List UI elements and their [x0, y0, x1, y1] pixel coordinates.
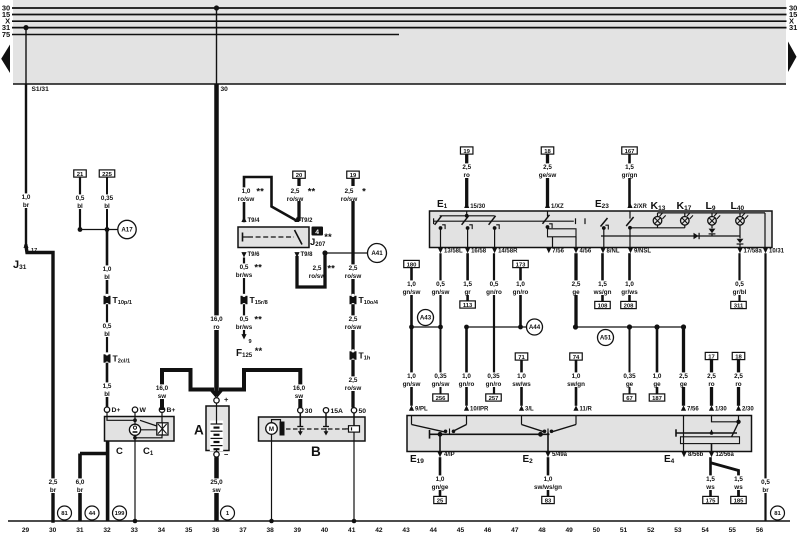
- svg-text:41: 41: [348, 527, 356, 534]
- wire 2,5 ge to 7/56: [682, 327, 685, 406]
- svg-text:S1/31: S1/31: [32, 86, 50, 93]
- pin 2/XR: [627, 203, 632, 208]
- pin 15/30: [464, 203, 469, 208]
- wire 0,35 bl: [106, 177, 108, 229]
- svg-text:bl: bl: [104, 391, 110, 398]
- svg-text:1,0: 1,0: [436, 476, 445, 483]
- wire gen bottom loop: [135, 435, 162, 438]
- diode under L9: [711, 225, 713, 228]
- svg-text:1,0: 1,0: [242, 188, 251, 195]
- node A44 left: [464, 325, 469, 330]
- node rail 41: [352, 519, 357, 524]
- wire bracket battery + to starter 30: [221, 370, 300, 408]
- generator symbol G: [129, 424, 140, 435]
- wire 1,5 ws left: [709, 457, 712, 496]
- svg-text:gn/sw: gn/sw: [403, 381, 421, 388]
- E4 wire 1/30 internal: [712, 416, 739, 422]
- svg-text:49: 49: [566, 527, 574, 534]
- relay switch blade: [295, 230, 303, 245]
- wire D+ internal: [107, 412, 135, 420]
- wire V joint at battery plus: [211, 390, 217, 397]
- svg-text:sw/ws: sw/ws: [512, 381, 531, 388]
- node junction 0,35bl: [105, 227, 110, 232]
- svg-text:0,5: 0,5: [103, 323, 112, 330]
- svg-text:T9/8: T9/8: [301, 252, 314, 258]
- wire 0,5 bl: [79, 177, 81, 229]
- svg-text:bl: bl: [104, 274, 110, 281]
- ground point 81: [58, 506, 72, 520]
- svg-text:2,5: 2,5: [349, 377, 358, 384]
- starter solenoid: [280, 422, 285, 436]
- svg-text:31: 31: [789, 23, 797, 32]
- wire 2,5 ro feed: [465, 154, 468, 208]
- wire 0,5 gn/ro - 0,35 gn/ro: [493, 253, 495, 394]
- svg-text:ge: ge: [653, 381, 661, 388]
- junction line to A41: [325, 252, 368, 254]
- E19 bus bar: [430, 433, 550, 435]
- svg-text:2,5: 2,5: [734, 373, 743, 380]
- track numbers: [22, 527, 764, 534]
- rail break symbol: [574, 219, 585, 223]
- ground point 81 right: [771, 506, 785, 520]
- svg-text:1,5: 1,5: [625, 164, 634, 171]
- wire 8/56b internal: [683, 433, 685, 452]
- bus bar band: [13, 0, 786, 84]
- wire 50 to track 41: [353, 432, 355, 521]
- E19 blade right: [452, 425, 467, 432]
- wire 2,5 ro/sw from 20: [297, 178, 300, 221]
- wire 0,5 gn/sw: [439, 253, 441, 327]
- ref box 19 mid: [347, 171, 360, 178]
- svg-text:gn/ro: gn/ro: [486, 289, 502, 296]
- svg-text:21: 21: [77, 172, 84, 178]
- svg-text:gr: gr: [464, 289, 471, 296]
- svg-text:10/IPR: 10/IPR: [470, 407, 489, 413]
- svg-text:2,5: 2,5: [543, 164, 552, 171]
- svg-text:67: 67: [626, 396, 633, 402]
- wire lamp feed rail: [630, 227, 685, 229]
- svg-text:54: 54: [701, 527, 709, 534]
- lamp L40: [736, 217, 745, 226]
- svg-text:bl: bl: [77, 203, 83, 210]
- wire 2,5 br elbow: [26, 246, 53, 521]
- E4 contact bar: [676, 432, 737, 434]
- svg-text:34: 34: [158, 527, 166, 534]
- wire 2,5 ro/sw hook to T9/8: [297, 253, 325, 287]
- svg-text:gr/ws: gr/ws: [621, 289, 638, 296]
- wire 1,0 sw/ws/gn: [547, 457, 550, 496]
- svg-text:12/56a: 12/56a: [716, 452, 735, 458]
- wire 1,5 gr: [466, 253, 469, 301]
- wire L40 down: [739, 225, 741, 238]
- svg-text:50: 50: [359, 408, 367, 415]
- wire 2,5 ro/sw mid: [351, 304, 354, 351]
- svg-text:256: 256: [436, 396, 447, 402]
- svg-text:2,5: 2,5: [349, 265, 358, 272]
- svg-text:18: 18: [544, 149, 551, 155]
- E4 switch blade: [732, 423, 739, 438]
- E4 wire 2/30 internal: [738, 416, 740, 422]
- svg-text:A: A: [194, 423, 204, 438]
- wire 30 inside band: [216, 8, 218, 84]
- contact 15A internal: [325, 413, 327, 427]
- pin 1/XZ: [545, 203, 550, 208]
- svg-text:ws: ws: [705, 484, 715, 491]
- svg-text:A44: A44: [529, 324, 541, 331]
- wire S1/31 inside band: [25, 28, 27, 84]
- warning lamp K13: [653, 217, 662, 226]
- svg-text:ws/gn: ws/gn: [593, 289, 612, 296]
- svg-text:13/58L: 13/58L: [444, 249, 463, 255]
- svg-text:16,0: 16,0: [293, 385, 306, 392]
- svg-text:**: **: [254, 263, 262, 274]
- svg-text:**: **: [327, 264, 335, 275]
- svg-text:74: 74: [573, 355, 580, 361]
- ref box 18 lower: [732, 352, 745, 359]
- terminal D+: [104, 407, 109, 412]
- E1 switch blade 58R: [489, 216, 496, 225]
- node A51 4: [681, 324, 686, 329]
- direction arrow right: [788, 42, 797, 73]
- svg-text:gr/gn: gr/gn: [622, 172, 638, 179]
- svg-text:199: 199: [115, 511, 126, 517]
- terminal T1h: [350, 351, 357, 359]
- svg-text:br: br: [50, 487, 57, 494]
- ref box 74: [570, 353, 583, 360]
- svg-text:1,0: 1,0: [22, 194, 31, 201]
- svg-text:31: 31: [76, 527, 84, 534]
- svg-text:1,0: 1,0: [517, 373, 526, 380]
- svg-text:35: 35: [185, 527, 193, 534]
- svg-text:10/31: 10/31: [769, 249, 785, 255]
- svg-text:1,0: 1,0: [572, 373, 581, 380]
- ref box 256: [433, 394, 449, 401]
- connector arrow 17 J31: [23, 243, 28, 248]
- svg-text:1/XZ: 1/XZ: [551, 204, 564, 210]
- svg-text:sw: sw: [158, 393, 167, 400]
- wire 1,5 gr/gn feed: [628, 154, 631, 208]
- bus labels right: [789, 4, 797, 33]
- svg-text:6,0: 6,0: [76, 479, 85, 486]
- wire 2,5 ro to 2/30: [737, 360, 740, 406]
- svg-text:0,35: 0,35: [101, 195, 114, 202]
- svg-text:208: 208: [624, 303, 635, 309]
- svg-text:14/58R: 14/58R: [498, 249, 518, 255]
- relay position tag 4: [312, 227, 324, 236]
- svg-text:47: 47: [511, 527, 519, 534]
- svg-text:0,5: 0,5: [761, 479, 770, 486]
- wire 25,0 sw battery ground: [214, 457, 219, 521]
- svg-text:ro/sw: ro/sw: [287, 196, 304, 203]
- svg-text:gn/ge: gn/ge: [432, 484, 449, 491]
- svg-text:2,5: 2,5: [679, 373, 688, 380]
- svg-text:175: 175: [706, 498, 717, 504]
- relay coil contact left: [242, 233, 244, 242]
- wire 9/NSL internal: [629, 228, 631, 248]
- lower box top pins: [409, 405, 414, 410]
- svg-text:ro/sw: ro/sw: [341, 196, 358, 203]
- svg-text:51: 51: [620, 527, 628, 534]
- terminal T10o/4: [350, 296, 357, 304]
- battery A body: [206, 406, 229, 451]
- node A51 2: [627, 324, 632, 329]
- ref box 175: [703, 496, 719, 503]
- svg-text:3/L: 3/L: [525, 407, 534, 413]
- svg-text:A43: A43: [420, 315, 432, 322]
- svg-text:B: B: [311, 444, 321, 459]
- starter box B: [259, 417, 366, 441]
- E4 wire 7/56 internal: [683, 416, 685, 434]
- svg-text:30: 30: [221, 86, 229, 93]
- bus line 75: [12, 34, 399, 36]
- svg-text:ro: ro: [708, 381, 714, 388]
- svg-text:M: M: [269, 426, 274, 433]
- relay dashed linkage: [248, 236, 294, 238]
- E2 blade right: [552, 425, 576, 432]
- svg-text:25,0: 25,0: [210, 479, 223, 486]
- svg-text:81: 81: [774, 511, 781, 517]
- ref box 257: [486, 394, 502, 401]
- E19 blade left: [412, 425, 445, 432]
- svg-text:br/ws: br/ws: [236, 272, 253, 279]
- svg-text:1,0: 1,0: [653, 373, 662, 380]
- terminal 30 starter: [298, 408, 303, 413]
- svg-text:38: 38: [266, 527, 274, 534]
- svg-text:**: **: [254, 315, 262, 326]
- bus line 15: [12, 14, 787, 16]
- svg-text:2,5: 2,5: [707, 373, 716, 380]
- svg-text:2,5: 2,5: [291, 188, 300, 195]
- svg-text:0,35: 0,35: [487, 373, 500, 380]
- svg-text:52: 52: [647, 527, 655, 534]
- diode right: [694, 233, 699, 239]
- svg-text:311: 311: [734, 303, 744, 309]
- node gen top: [133, 418, 137, 422]
- node E2 link: [538, 432, 543, 437]
- svg-text:1,5: 1,5: [598, 281, 607, 288]
- wire 1,0 sw/ws: [520, 360, 523, 406]
- svg-text:T9/6: T9/6: [248, 252, 261, 258]
- relay box J207: [238, 227, 309, 248]
- svg-text:4: 4: [315, 229, 319, 236]
- node A51 3: [654, 324, 659, 329]
- svg-text:0,5: 0,5: [490, 281, 499, 288]
- svg-text:44: 44: [89, 511, 96, 517]
- E1 box bottom pins: [438, 248, 443, 253]
- wire 10/31 internal: [764, 213, 766, 248]
- svg-text:A51: A51: [600, 335, 612, 342]
- terminal W: [132, 407, 137, 412]
- ref box 25: [434, 496, 447, 503]
- svg-text:1,0: 1,0: [462, 373, 471, 380]
- svg-text:D+: D+: [112, 407, 121, 414]
- svg-text:**: **: [324, 232, 332, 243]
- lamp ground rail: [658, 212, 766, 214]
- svg-text:1,5: 1,5: [463, 281, 472, 288]
- connector A17: [118, 220, 136, 238]
- connector A51: [598, 330, 614, 346]
- svg-text:A41: A41: [371, 250, 383, 257]
- svg-text:sw: sw: [295, 393, 304, 400]
- terminal B+: [159, 407, 164, 412]
- wire gen to regulator: [141, 429, 157, 431]
- bus line 30: [12, 7, 787, 9]
- wire 1,0 gn/ro from 173: [519, 268, 522, 327]
- wire 0,5 br ground: [764, 253, 766, 521]
- wire 0,5 br/ws to fuse: [243, 304, 245, 334]
- svg-text:16,0: 16,0: [210, 316, 223, 323]
- pin T9/4: [241, 217, 246, 222]
- lower switch box body: [407, 416, 752, 452]
- wire M to solenoid: [272, 420, 281, 423]
- svg-text:16/58: 16/58: [471, 249, 487, 255]
- svg-text:2,5: 2,5: [462, 164, 471, 171]
- svg-text:ro/sw: ro/sw: [238, 196, 255, 203]
- svg-text:T9/4: T9/4: [248, 218, 261, 224]
- ref box 113: [460, 301, 476, 308]
- svg-text:0,5: 0,5: [240, 316, 249, 323]
- svg-text:ro/sw: ro/sw: [345, 273, 362, 280]
- svg-text:37: 37: [239, 527, 247, 534]
- node gen bottom: [133, 436, 137, 440]
- ref box 83: [542, 496, 555, 503]
- svg-text:ge/sw: ge/sw: [539, 172, 557, 179]
- svg-text:11/R: 11/R: [580, 407, 593, 413]
- junction line A43: [412, 326, 441, 328]
- ref box 173: [513, 260, 529, 267]
- E4 mid contact: [711, 430, 713, 433]
- terminal 50 starter: [351, 408, 356, 413]
- wire 1,0 br: [25, 84, 27, 246]
- svg-text:53: 53: [674, 527, 682, 534]
- ref box 225: [99, 170, 115, 177]
- wire 1,5 ws/gn: [601, 253, 604, 301]
- junction line to A17: [80, 229, 118, 231]
- svg-text:8/NL: 8/NL: [607, 249, 620, 255]
- node A41 junction: [322, 250, 327, 255]
- svg-text:45: 45: [457, 527, 465, 534]
- svg-text:ro: ro: [464, 172, 470, 179]
- ref box 17: [705, 352, 718, 359]
- terminal T10p/1: [104, 296, 111, 304]
- node on bus 31: [23, 25, 28, 30]
- svg-text:1,5: 1,5: [734, 476, 743, 483]
- ref box 167: [622, 147, 638, 154]
- wire 1,0 gn/ro to 10/IPR: [465, 327, 468, 406]
- svg-text:ro/sw: ro/sw: [345, 324, 362, 331]
- ref box 71: [515, 353, 528, 360]
- svg-text:bl: bl: [104, 331, 110, 338]
- ref box 185: [731, 496, 747, 503]
- svg-text:sw/ws/gn: sw/ws/gn: [534, 484, 562, 491]
- pin T9/2: [294, 217, 299, 222]
- wire 12/56a internal: [711, 444, 713, 452]
- svg-text:1,0: 1,0: [516, 281, 525, 288]
- E23 switch blade NSL: [626, 217, 633, 226]
- ref box 18 right: [541, 147, 554, 154]
- svg-text:81: 81: [61, 511, 68, 517]
- fuse F125 arrow: [241, 334, 246, 339]
- svg-text:br/ws: br/ws: [236, 324, 253, 331]
- svg-text:30: 30: [305, 408, 313, 415]
- svg-text:42: 42: [375, 527, 383, 534]
- svg-text:5/49a: 5/49a: [552, 452, 568, 458]
- svg-text:15A: 15A: [331, 408, 344, 415]
- diode under L40: [737, 239, 744, 244]
- svg-text:50: 50: [593, 527, 601, 534]
- E1 contact rail: [433, 220, 576, 222]
- svg-text:16,0: 16,0: [156, 385, 169, 392]
- svg-text:1/30: 1/30: [715, 407, 727, 413]
- svg-text:36: 36: [212, 527, 220, 534]
- E2 wire 3/L internal: [521, 416, 523, 425]
- dashed linkage: [286, 428, 346, 430]
- E19 bus end tick: [429, 430, 431, 439]
- pin T9/8: [294, 252, 299, 257]
- wire 6,0 br: [78, 454, 82, 522]
- junction line A44: [467, 326, 527, 328]
- svg-text:ge: ge: [626, 381, 634, 388]
- svg-text:257: 257: [489, 396, 500, 402]
- wire W internal: [134, 412, 136, 424]
- svg-text:2,5: 2,5: [313, 265, 322, 272]
- pin T9/6: [241, 252, 246, 257]
- svg-text:C: C: [116, 446, 123, 457]
- wire 1,0 ge: [656, 327, 659, 394]
- svg-text:71: 71: [518, 355, 525, 361]
- E19 wire 10/IPR internal: [466, 416, 468, 425]
- current track rail: [8, 520, 790, 522]
- svg-text:4/IP: 4/IP: [444, 452, 455, 458]
- svg-text:B+: B+: [167, 407, 176, 414]
- svg-text:17: 17: [708, 354, 715, 360]
- node A51 1: [573, 324, 578, 329]
- E1 headlight switch contact 1/XZ: [547, 211, 549, 217]
- svg-text:55: 55: [729, 527, 737, 534]
- regulator symbol C1: [157, 423, 168, 435]
- E1 XZ contact bridge: [548, 229, 577, 237]
- ref box 311: [731, 301, 747, 308]
- battery - terminal: [214, 452, 219, 457]
- svg-text:gn/ro: gn/ro: [486, 381, 502, 388]
- node A43 left: [409, 325, 414, 330]
- svg-text:br: br: [23, 202, 30, 209]
- node rail 33: [133, 519, 138, 524]
- svg-text:15/30: 15/30: [470, 204, 486, 210]
- direction arrow left: [1, 45, 10, 74]
- node A44 right: [518, 325, 523, 330]
- warning lamp K17: [681, 217, 690, 226]
- wire 0,5 gr/bl: [738, 253, 740, 301]
- svg-text:0,35: 0,35: [623, 373, 636, 380]
- wire 2,5 ro to 1/30: [710, 360, 713, 406]
- svg-text:ge: ge: [680, 381, 688, 388]
- wire 5/49a internal: [547, 433, 549, 452]
- svg-text:2,5: 2,5: [572, 281, 581, 288]
- ref box 20: [293, 171, 306, 178]
- svg-text:0,5: 0,5: [240, 264, 249, 271]
- svg-text:46: 46: [484, 527, 492, 534]
- wire B+ internal: [161, 412, 163, 422]
- E1 riser 15/30: [466, 211, 468, 216]
- svg-text:20: 20: [296, 173, 303, 179]
- svg-text:173: 173: [516, 262, 527, 268]
- E2 wire 11/R internal: [575, 416, 577, 425]
- bus line X: [12, 20, 787, 22]
- svg-text:40: 40: [321, 527, 329, 534]
- svg-text:2,5: 2,5: [345, 188, 354, 195]
- E19 wire 9/PL internal: [411, 416, 413, 425]
